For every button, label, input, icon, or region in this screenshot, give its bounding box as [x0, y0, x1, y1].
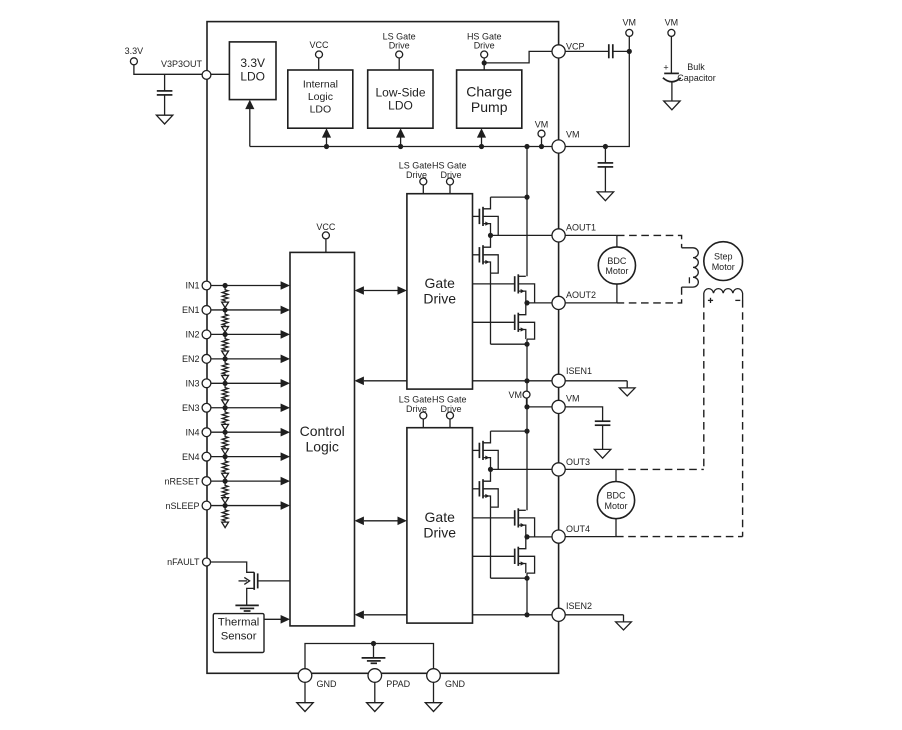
svg-text:LS Gate: LS Gate [399, 161, 432, 171]
arrow nSLEEP into Control Logic [281, 501, 290, 510]
node bus/Low-Side-LDO [398, 144, 403, 149]
svg-text:LS Gate: LS Gate [399, 395, 432, 405]
svg-text:HS Gate: HS Gate [432, 395, 467, 405]
svg-text:LDO: LDO [310, 103, 332, 115]
pin AOUT1 [552, 229, 565, 242]
ground (die attach, signal ground) [373, 644, 375, 658]
svg-text:Thermal: Thermal [218, 616, 259, 628]
capacitor C-VM bypass [604, 147, 606, 163]
wire LS2 source down (bridge B) [526, 573, 528, 615]
svg-text:Drive: Drive [406, 404, 427, 414]
svg-text:nSLEEP: nSLEEP [165, 501, 199, 511]
svg-text:nFAULT: nFAULT [167, 557, 200, 567]
wire VM internal terminal to bridge B bus [526, 398, 528, 407]
node nSLEEP pulldown tap [223, 503, 228, 508]
inductor step winding 2 [704, 289, 743, 300]
wire VM to bulk capacitor [670, 36, 672, 73]
terminal VM (internal, bridge A) [538, 130, 545, 137]
ground (bulk cap) [664, 101, 680, 110]
wire EN2 to Control Logic [211, 358, 281, 360]
wire PPAD to ground [374, 682, 376, 702]
wire VM node down to VM pin [565, 51, 629, 146]
node AOUT1 [488, 233, 493, 238]
capacitor C-VCP (series) [608, 44, 610, 58]
arrow IN2 into Control Logic [281, 330, 290, 339]
motor Step Motor [704, 242, 743, 281]
svg-text:AOUT1: AOUT1 [566, 222, 596, 232]
node IN2 pulldown tap [223, 332, 228, 337]
arrow Gate Drive 1 to Control Logic (ISEN1 fb) [364, 380, 407, 382]
wire EN1 to Control Logic [211, 309, 281, 311]
capacitor C-V3P3OUT [164, 74, 166, 91]
node ground tie / PPAD [371, 641, 376, 646]
node HS-gate/VCP junction [482, 60, 487, 65]
ground (ISEN2) [616, 622, 632, 630]
svg-text:Drive: Drive [423, 525, 456, 541]
svg-text:Motor: Motor [605, 266, 628, 276]
resistor pulldown EN1 [222, 310, 228, 327]
polarity mark winding 2 (-) [735, 299, 740, 301]
wire EN3 to Control Logic [211, 407, 281, 409]
ground (VM bypass cap) [597, 192, 613, 201]
svg-text:PPAD: PPAD [386, 679, 410, 689]
transistor Q-B-HS2 (high side, OUT4) [473, 517, 515, 519]
svg-text:IN2: IN2 [185, 330, 199, 340]
pin V3P3OUT [202, 71, 211, 80]
transistor Q-A-LS1 (low side, AOUT1) [473, 254, 480, 256]
node IN1 pulldown tap [223, 283, 228, 288]
svg-text:OUT3: OUT3 [566, 457, 590, 467]
transistor Q-A-LS2 (low side, AOUT2) [473, 321, 515, 323]
wire AOUT1 dashed to step winding 1 [617, 235, 682, 247]
wire EN4 to Control Logic [211, 456, 281, 458]
wire nSLEEP to Control Logic [211, 505, 281, 507]
wire OUT3 rail [491, 468, 559, 470]
pin IN1 [202, 281, 211, 290]
svg-text:AOUT2: AOUT2 [566, 290, 596, 300]
pin AOUT2 [552, 296, 565, 309]
svg-text:3.3V: 3.3V [240, 56, 265, 70]
ground (VM bridge B cap) [594, 449, 610, 458]
wire VCC to Control Logic [325, 239, 327, 253]
resistor pulldown IN1 [222, 286, 228, 303]
resistor pulldown IN4 [222, 432, 228, 449]
terminal 3.3V [130, 58, 137, 65]
svg-text:VCC: VCC [316, 222, 336, 232]
svg-text:OUT4: OUT4 [566, 524, 590, 534]
pin OUT4 [552, 530, 565, 543]
pin GND [427, 669, 441, 683]
block Internal Logic LDO [288, 70, 353, 128]
svg-text:Logic: Logic [305, 439, 338, 455]
wire bus riser to Internal Logic LDO with arrow [326, 136, 328, 147]
terminal VCC (Control Logic) [322, 232, 329, 239]
svg-text:V3P3OUT: V3P3OUT [161, 59, 203, 69]
pin EN4 [202, 452, 211, 461]
wire nFAULT to transistor drain [211, 562, 254, 572]
node bridge B VM tap [524, 404, 529, 409]
ground (V3P3OUT cap) [156, 115, 172, 124]
ground (ISEN1) [619, 388, 635, 396]
terminal VM (internal, bridge B) [523, 391, 530, 398]
svg-text:+: + [663, 63, 668, 73]
node EN3 pulldown tap [223, 405, 228, 410]
svg-text:ISEN2: ISEN2 [566, 601, 592, 611]
svg-text:Gate: Gate [425, 275, 456, 291]
wire BDC B top lead [615, 469, 617, 481]
svg-text:HS Gate: HS Gate [432, 161, 467, 171]
wire HS1 drain rail (bridge A) [491, 196, 528, 198]
terminal HS Gate Drive (Gate Drive 1) [447, 178, 454, 185]
svg-text:Sensor: Sensor [221, 631, 257, 643]
pin PPAD [368, 669, 382, 683]
wire IN1 to Control Logic [211, 285, 281, 287]
arrow Control Logic <-> Gate Drive 2 [364, 520, 398, 522]
pin VCP [552, 45, 565, 58]
wire ISEN2 to ground [565, 614, 623, 616]
wire LS1-source to sense rail (bridge A) [491, 343, 528, 345]
svg-text:VM: VM [509, 390, 523, 400]
transistor Q-B-LS1 (low side, OUT3) [473, 488, 480, 490]
transistor Q-FAULT (open drain) [253, 572, 255, 590]
svg-text:GND: GND [317, 679, 338, 689]
svg-text:EN3: EN3 [182, 403, 200, 413]
node EN4 pulldown tap [223, 454, 228, 459]
svg-text:Drive: Drive [474, 40, 495, 50]
wire IN3 to Control Logic [211, 382, 281, 384]
wire internal ground tie [305, 644, 434, 669]
svg-text:VM: VM [566, 130, 580, 140]
wire BDC B bottom lead [615, 519, 617, 537]
wire AOUT1 to BDC motor A [565, 234, 617, 236]
svg-text:Control: Control [300, 423, 345, 439]
motor BDC Motor B [597, 482, 634, 519]
svg-text:VCP: VCP [566, 41, 585, 51]
svg-text:IN3: IN3 [185, 379, 199, 389]
wire nRESET to Control Logic [211, 480, 281, 482]
svg-text:VM: VM [665, 18, 679, 28]
wire V3P3OUT to 3.3V LDO [211, 73, 230, 75]
arrow nRESET into Control Logic [281, 477, 290, 486]
wire bus riser to 3.3V LDO with arrow [249, 108, 251, 147]
block Low-Side LDO [368, 70, 433, 128]
wire HS1 drain rail (bridge B) [491, 430, 528, 432]
block Control Logic U-CTRL [290, 252, 355, 626]
terminal VCC (top) [316, 51, 323, 58]
svg-text:nRESET: nRESET [164, 476, 200, 486]
arrow Control Logic <-> Gate Drive 1 [364, 290, 398, 292]
resistor pulldown EN3 [222, 408, 228, 425]
pin IN2 [202, 330, 211, 339]
svg-text:Low-Side: Low-Side [375, 85, 425, 99]
svg-text:Drive: Drive [440, 170, 461, 180]
polarity mark winding 1 (-) [688, 277, 690, 283]
terminal LS Gate Drive (top) [396, 51, 403, 58]
svg-text:Capacitor: Capacitor [677, 73, 716, 83]
capacitor C-VM bridge B [595, 420, 611, 422]
wire OUT3 dashed to step winding 2 [616, 468, 704, 470]
terminal VM (external, VCP cap) [626, 29, 633, 36]
pin VM [552, 400, 565, 413]
node ISEN2 [524, 612, 529, 617]
pin EN2 [202, 354, 211, 363]
terminal VM (external, bulk) [668, 29, 675, 36]
wire bus riser to Low-Side LDO with arrow [400, 136, 402, 147]
wire ISEN1 to ground [565, 380, 627, 382]
node IN4 pulldown tap [223, 430, 228, 435]
transistor Q-A-HS2 (high side, AOUT2) [473, 283, 515, 285]
svg-text:Bulk: Bulk [687, 62, 705, 72]
arrow IN3 into Control Logic [281, 379, 290, 388]
node EN2 pulldown tap [223, 356, 228, 361]
node LS sources junction (bridge B) [524, 576, 529, 581]
resistor pulldown IN3 [222, 383, 228, 400]
svg-text:VCC: VCC [309, 40, 329, 50]
resistor pulldown IN2 [222, 334, 228, 351]
node bus/bridge-A VM tap [524, 144, 529, 149]
wire LS1-source to sense rail (bridge B) [491, 577, 528, 579]
wire AOUT2 to BDC motor A [565, 302, 617, 304]
polarity mark winding 2 (+) [708, 299, 713, 301]
block Gate Drive 2 [407, 428, 473, 623]
arrow IN4 into Control Logic [281, 428, 290, 437]
wire GND to ground [433, 682, 435, 702]
transistor Q-A-HS1 (high side, AOUT1) [473, 215, 480, 217]
node nRESET pulldown tap [223, 479, 228, 484]
svg-text:Drive: Drive [389, 40, 410, 50]
wire VM terminal stub [628, 36, 630, 51]
wire VM supply bus (y=146.5) [250, 146, 552, 148]
svg-text:GND: GND [445, 679, 466, 689]
wire LS Gate Drive to Low-Side LDO [398, 58, 400, 70]
wire LS1 source down (bridge A) [490, 273, 492, 344]
node HS drain tap (bridge B) [524, 429, 529, 434]
wire OUT4 rail [527, 536, 559, 538]
pin VM (top) [552, 140, 565, 153]
svg-text:EN1: EN1 [182, 305, 200, 315]
transistor Q-B-LS2 (low side, OUT4) [473, 555, 515, 557]
wire VCP to series capacitor [565, 50, 609, 52]
svg-text:EN2: EN2 [182, 354, 200, 364]
svg-text:LDO: LDO [240, 69, 265, 83]
block Gate Drive 1 [407, 194, 473, 389]
svg-text:Drive: Drive [406, 170, 427, 180]
wire BDC A bottom lead [616, 284, 618, 303]
wire AOUT2 rail [527, 302, 559, 304]
wire 3.3V to V3P3OUT [134, 65, 203, 75]
ground (Q-FAULT source, signal ground) [235, 604, 258, 606]
wire OUT4 to BDC motor B [565, 536, 616, 538]
wire bus riser to Charge Pump with arrow [481, 136, 483, 147]
wire winding2 left lead dashed to OUT3 net [703, 300, 705, 469]
svg-text:3.3V: 3.3V [125, 46, 144, 56]
wire VCC to Internal Logic LDO [318, 58, 320, 70]
svg-text:Step: Step [714, 252, 733, 262]
svg-text:BDC: BDC [607, 256, 627, 266]
pin nRESET [202, 477, 211, 486]
node OUT3 [488, 467, 493, 472]
svg-text:Pump: Pump [471, 99, 508, 115]
wire OUT4 dashed to step winding 2 [616, 536, 743, 538]
wire step winding 1 return (dashed) to AOUT2 [617, 287, 682, 303]
node VM bypass cap tap [603, 144, 608, 149]
transistor Q-B-HS1 (high side, OUT3) [473, 449, 480, 451]
wire VM pin (mid) to bypass cap [565, 407, 602, 421]
arrow EN2 into Control Logic [281, 355, 290, 364]
wire AOUT1 rail [491, 234, 559, 236]
wire ISEN1 rail [473, 380, 559, 382]
svg-text:LDO: LDO [388, 99, 413, 113]
node bus/Charge-Pump [479, 144, 484, 149]
svg-text:VM: VM [623, 18, 637, 28]
svg-text:Logic: Logic [308, 91, 333, 103]
resistor pulldown nSLEEP [222, 506, 228, 523]
resistor pulldown EN4 [222, 457, 228, 474]
block Charge Pump [457, 70, 522, 128]
svg-text:Internal: Internal [303, 79, 338, 91]
pin nFAULT [203, 558, 211, 566]
wire winding2 right lead dashed to OUT4 net [742, 300, 744, 537]
terminal LS Gate Drive (Gate Drive 1) [420, 178, 427, 185]
wire capacitor to VM node [613, 50, 630, 52]
wire IN2 to Control Logic [211, 333, 281, 335]
pin IN3 [202, 379, 211, 388]
svg-text:Gate: Gate [425, 509, 456, 525]
pin ISEN2 [552, 608, 565, 621]
node HS drain tap (bridge A) [524, 195, 529, 200]
arrow EN1 into Control Logic [281, 306, 290, 315]
node OUT4 [524, 534, 529, 539]
arrow EN4 into Control Logic [281, 452, 290, 461]
block 3.3V LDO [229, 42, 276, 100]
wire BDC A top lead [616, 235, 618, 247]
device boundary (chip outline) [207, 22, 559, 674]
svg-text:BDC: BDC [606, 491, 626, 501]
arrow Gate Drive 2 to Control Logic (ISEN2 fb) [364, 614, 407, 616]
wire ISEN2 rail [473, 614, 559, 616]
wire VM bus vertical (bridge A) [526, 147, 528, 277]
pin nSLEEP [202, 501, 211, 510]
ground (GND) [425, 703, 441, 712]
pin EN3 [202, 403, 211, 412]
svg-text:VM: VM [566, 393, 580, 403]
terminal LS Gate Drive (Gate Drive 2) [420, 412, 427, 419]
resistor pulldown nRESET [222, 481, 228, 498]
wire IN4 to Control Logic [211, 431, 281, 433]
motor BDC Motor A [598, 247, 635, 284]
node bus/Internal-Logic-LDO [324, 144, 329, 149]
arrow IN1 into Control Logic [281, 281, 290, 290]
svg-text:Motor: Motor [604, 501, 627, 511]
block Thermal Sensor [213, 614, 264, 653]
node bus/VM-internal [539, 144, 544, 149]
node IN3 pulldown tap [223, 381, 228, 386]
pin GND [298, 669, 312, 683]
wire bridge B VM tap to VM pin [527, 406, 559, 408]
arrow Thermal Sensor to Control Logic [264, 618, 281, 620]
node VCP-cap/VM [627, 49, 632, 54]
wire HS Gate Drive junction to VCP pin [484, 51, 552, 63]
arrow EN3 into Control Logic [281, 403, 290, 412]
svg-text:Drive: Drive [440, 404, 461, 414]
ground (GND) [297, 703, 313, 712]
wire OUT3 to BDC motor B [565, 468, 616, 470]
node ISEN1 [524, 378, 529, 383]
pin OUT3 [552, 463, 565, 476]
svg-text:VM: VM [535, 119, 549, 129]
pin IN4 [202, 428, 211, 437]
wire HS Gate Drive to Charge Pump [483, 58, 485, 70]
svg-text:EN4: EN4 [182, 452, 200, 462]
svg-text:IN1: IN1 [185, 281, 199, 291]
node AOUT2 [524, 300, 529, 305]
inductor step winding 1 [682, 248, 699, 287]
wire GND to ground [304, 682, 306, 702]
node LS sources junction (bridge A) [524, 342, 529, 347]
svg-text:ISEN1: ISEN1 [566, 366, 592, 376]
terminal HS Gate Drive (top) [481, 51, 488, 58]
terminal HS Gate Drive (Gate Drive 2) [447, 412, 454, 419]
pin ISEN1 [552, 374, 565, 387]
ground (PPAD) [367, 703, 383, 712]
svg-text:Charge: Charge [466, 84, 512, 100]
svg-text:Motor: Motor [712, 262, 735, 272]
wire LS2 source down (bridge A) [526, 339, 528, 381]
svg-text:Drive: Drive [423, 291, 456, 307]
svg-text:IN4: IN4 [185, 427, 199, 437]
node EN1 pulldown tap [223, 307, 228, 312]
resistor pulldown EN2 [222, 359, 228, 376]
wire LS1 source down (bridge B) [490, 507, 492, 578]
wire VM internal terminal to bus [541, 137, 543, 146]
wire VM bus vertical (bridge B) [526, 381, 528, 511]
pin EN1 [202, 306, 211, 315]
